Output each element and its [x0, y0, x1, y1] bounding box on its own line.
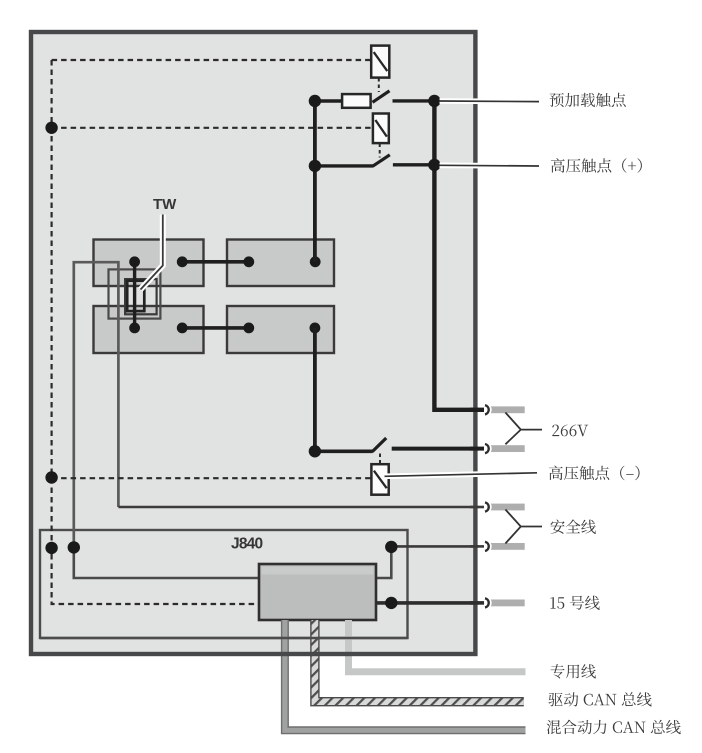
wire battery TL to TR	[182, 260, 249, 264]
wire HV+ fixed contact to node	[393, 163, 435, 166]
label 驱动 CAN 总线	[549, 692, 652, 706]
battery module top-left	[94, 240, 204, 287]
label 安全线	[551, 520, 596, 534]
label 15 号线	[550, 596, 599, 610]
relay coil 1 to switch dashed link	[378, 78, 380, 92]
wire left vertical (preload/HV+ to battery TR)	[313, 101, 317, 262]
callout line TW	[141, 215, 163, 290]
relay coil 2 to switch dashed link	[379, 144, 381, 158]
thermistor TW element	[127, 281, 144, 311]
resistor (preload)	[342, 94, 371, 108]
gray sensor wire TW to J840 (left)	[74, 262, 119, 547]
relay coil K1 (preload)	[371, 46, 389, 78]
battery module bottom-right	[227, 306, 334, 353]
label 266V	[552, 425, 588, 437]
switch HV- moving contact	[372, 438, 386, 452]
hybrid CAN bus wire	[285, 620, 526, 730]
wire safety-line top run	[118, 506, 480, 509]
leader line preload contact	[440, 98, 540, 104]
switch preload moving contact	[373, 91, 390, 103]
relay coil K2 (HV+)	[373, 114, 389, 144]
label 预加载触点	[550, 93, 626, 107]
battery enclosure fill	[31, 32, 475, 654]
wire HV+ row left	[315, 164, 373, 167]
connector safety top	[470, 501, 525, 514]
battery module bottom-left	[94, 306, 204, 353]
wire inside J840 U-shape	[74, 547, 392, 578]
connector 266V+	[470, 404, 525, 417]
junction dots	[45, 122, 57, 134]
bracket safety line	[505, 510, 542, 544]
dedicated line wire	[349, 620, 526, 672]
wire preload row left	[315, 99, 343, 102]
label 高压触点（－）	[549, 466, 640, 481]
callout line HV- contact	[385, 473, 538, 477]
dashed control line to HV- relay coil	[52, 477, 372, 479]
label 高压触点（+）	[551, 158, 642, 173]
wire safety-line bottom exit	[391, 545, 480, 548]
wire battery BR down to HV- switch	[313, 328, 317, 451]
wire battery TL to BL through TW	[133, 262, 136, 328]
connector block on J840	[259, 564, 376, 620]
wire J840 bottom edge over cables	[40, 637, 408, 639]
dashed control line vertical left	[52, 60, 260, 604]
wire HV- fixed contact to 266V- exit	[392, 447, 480, 451]
temperature sensor TW middle box	[125, 279, 157, 314]
label 专用线	[551, 664, 596, 679]
connector 266V-	[470, 442, 525, 455]
switch HV+ moving contact	[373, 155, 390, 167]
bracket 266V	[505, 413, 542, 445]
wire right vertical to 266V+ exit	[434, 101, 480, 410]
wire HV- switch left	[315, 449, 373, 453]
wire terminal-15 exit	[376, 601, 480, 605]
wire preload fixed contact to node	[393, 99, 435, 102]
leader line HV+ contact	[440, 163, 540, 169]
svg-text:J840: J840	[231, 535, 262, 552]
svg-text:TW: TW	[153, 196, 177, 213]
dashed control line to relay coil 1	[52, 59, 372, 61]
battery terminal dots	[129, 256, 140, 267]
temperature sensor TW outer housing	[109, 269, 161, 318]
connector terminal 15	[470, 597, 525, 610]
battery enclosure border	[31, 32, 475, 654]
connector safety bottom	[470, 540, 525, 553]
wire battery BL to BR	[182, 326, 249, 330]
relay coil 3 to switch dashed link	[379, 453, 381, 464]
label 混合动力 CAN 总线	[547, 720, 681, 734]
dashed control line to relay coil 2	[52, 127, 373, 129]
control unit J840 box	[40, 530, 408, 638]
relay coil K3 (HV-)	[371, 464, 388, 495]
battery module top-right	[227, 240, 334, 287]
